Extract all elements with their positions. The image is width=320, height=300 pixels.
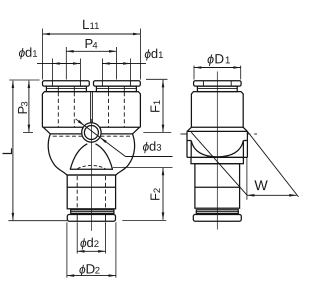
dimension F1 top extension [146, 78, 168, 80]
label F1 (rotated) [148, 100, 164, 113]
ledge line segments at y=134 [50, 133, 82, 135]
center-height connector dashes [181, 133, 258, 135]
svg-text:W: W [254, 178, 268, 194]
svg-text:F: F [148, 193, 163, 201]
top cap right port [94, 81, 141, 86]
branch saddle bowl [191, 141, 243, 157]
hidden bore lines left port [58, 92, 124, 127]
dimension P4 line [66, 50, 116, 52]
svg-text:d: d [86, 235, 93, 250]
svg-text:D: D [214, 51, 224, 66]
saddle arch right [96, 144, 113, 170]
side stem body [195, 164, 240, 209]
W oblique extension from right flat corner [247, 131, 298, 197]
svg-text:d: d [151, 46, 158, 61]
label phi-d1 left [18, 45, 37, 60]
svg-text:2: 2 [95, 266, 100, 277]
label F2 (rotated) [148, 188, 164, 201]
dimension phi-d1 right line [102, 63, 130, 65]
dimension phi-d2 extension lines [77, 222, 105, 253]
dimension L11 line [43, 33, 141, 35]
stem parting line [67, 186, 115, 188]
Y outline left [48, 134, 67, 175]
dimension phi-D1 extension lines [194, 66, 241, 80]
dimension F2 top extension [113, 166, 173, 168]
collar left port [46, 86, 86, 92]
dimension P4 extension lines (port centers) [66, 47, 116, 80]
hidden saddle arch [78, 165, 106, 168]
transition band [191, 157, 243, 163]
left/P3/L top extension line [9, 79, 39, 81]
W oblique extension from left flat corner [191, 132, 247, 195]
stem center line [90, 119, 92, 231]
hex flats [186, 131, 188, 157]
label P3 (rotated) [15, 101, 31, 114]
center orifice circle outer [82, 123, 101, 142]
svg-text:1: 1 [32, 49, 37, 60]
Y outline right [116, 134, 135, 175]
svg-text:4: 4 [92, 41, 97, 52]
hex section top edge [187, 130, 247, 132]
cap hole edges right [101, 81, 103, 86]
side collar [197, 86, 237, 92]
hex corner ticks [187, 140, 191, 142]
label phi-D2 [79, 261, 100, 276]
label phi-d3 [142, 139, 161, 154]
svg-text:11: 11 [89, 21, 99, 32]
side bottom cap [193, 215, 241, 222]
dimension phi-d1 left line [37, 63, 52, 65]
label W [254, 178, 268, 194]
svg-text:3: 3 [20, 101, 31, 106]
neck line lower [67, 174, 115, 176]
side cap hole edges [202, 81, 204, 86]
top cap left port [43, 81, 90, 86]
cap hole edges left [51, 81, 53, 86]
dimension F1 line [162, 80, 164, 132]
svg-text:1: 1 [152, 100, 163, 105]
side body bottom chamfers [187, 127, 191, 131]
side cap [194, 81, 242, 86]
svg-text:ϕ: ϕ [207, 52, 214, 66]
dimension phi-D2 line [67, 275, 116, 277]
bottom cap [67, 215, 115, 222]
center orifice circle inner (d3) [84, 126, 98, 140]
svg-text:1: 1 [225, 55, 231, 66]
side bottom collar [196, 210, 238, 214]
body bottom chamfer right [133, 127, 140, 134]
label L11 [82, 17, 99, 32]
label phi-d1 right [144, 46, 163, 61]
P3 bottom extension [23, 132, 33, 134]
hex bottom edge [187, 156, 247, 158]
svg-text:d: d [149, 139, 156, 154]
upper body block [42, 92, 140, 128]
svg-text:d: d [25, 45, 32, 60]
dimension phi-d1 right: extension lines [102, 59, 130, 81]
label phi-D1 [207, 51, 231, 66]
bottom collar [71, 210, 114, 214]
svg-text:3: 3 [156, 143, 161, 154]
neck line upper [70, 168, 113, 170]
phi-d3 leader shoulder [126, 156, 173, 158]
side center line [216, 72, 218, 230]
dimension L11 extension lines [43, 29, 141, 80]
svg-text:1: 1 [158, 50, 163, 61]
body bottom chamfer left [43, 127, 50, 134]
side stem parting line [195, 186, 240, 188]
phi-d3 leader diagonal through circle [76, 119, 85, 126]
center joint double line [90, 92, 92, 124]
dimension phi-d2 line [77, 250, 105, 252]
svg-text:2: 2 [94, 239, 99, 250]
svg-text:F: F [148, 105, 163, 113]
svg-text:L: L [0, 147, 15, 155]
right flat vertical extension [246, 157, 248, 199]
hidden ledge dashed [53, 135, 130, 137]
bottom cap hole edges [76, 215, 78, 222]
dimension phi-D2 extension lines [67, 222, 116, 278]
dimension P3 line [28, 81, 30, 132]
hex corner lines [190, 141, 192, 158]
dimension W line [247, 194, 297, 196]
dimension F2 bottom extension [122, 219, 166, 221]
stem hidden bore lines [77, 176, 105, 208]
dimension phi-d1 left: extension lines [52, 59, 80, 81]
bottom stem body [67, 175, 115, 209]
label P4 [84, 36, 97, 52]
svg-text:2: 2 [152, 188, 163, 193]
saddle arch left [70, 144, 87, 170]
dimension L line [12, 81, 14, 221]
dimension phi-D1 line [194, 67, 241, 69]
collar right port [96, 86, 136, 92]
side body [191, 92, 243, 128]
label phi-d2 [80, 235, 99, 250]
L bottom extension [8, 220, 67, 222]
label L (rotated) [0, 147, 15, 155]
dimension F2 line [162, 168, 164, 220]
dimension F1 bottom extension [143, 132, 171, 134]
